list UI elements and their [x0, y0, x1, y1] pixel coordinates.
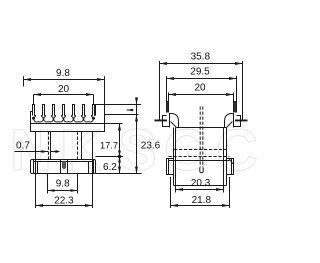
leader line L2 comb-top level — [105, 114, 139, 116]
body wall extension through flange left (22.3 ext) — [35, 160, 37, 209]
svg-text:22.3: 22.3 — [54, 195, 74, 206]
dimension 22.3: arrows — [36, 204, 93, 207]
right tab hook — [229, 158, 233, 164]
svg-text:9.8: 9.8 — [56, 178, 70, 189]
dimension 22.3: line — [36, 205, 93, 207]
svg-text:20: 20 — [194, 83, 206, 94]
body left wall — [35, 132, 37, 160]
flange inner rim right — [93, 160, 95, 174]
dimension 35.8: text — [191, 52, 211, 63]
dimension 20 top-left: extension lines — [34, 95, 94, 105]
dimension 21.8: text — [192, 195, 212, 206]
flange inner top line — [34, 161, 94, 163]
dimension 23.6: arrow up to L2 — [135, 115, 138, 122]
center pin cross-section (hatched) — [62, 162, 66, 170]
dimension 21.8: line — [171, 205, 230, 207]
small arrow between L1 and L2 — [127, 109, 134, 111]
pin 1 — [33, 105, 35, 116]
dimension 29.5: arrows — [167, 77, 237, 80]
blob at pin 7 base — [92, 117, 95, 120]
core wall hidden line right — [81, 132, 83, 160]
body right wall — [92, 132, 94, 160]
dimension 9.8 bottom: text — [56, 178, 70, 189]
left pin body — [167, 102, 169, 113]
blob at pin 1 base — [32, 117, 35, 120]
dimension 20 right: arrows — [169, 93, 234, 96]
slab second line — [169, 160, 230, 162]
dimension 17.7: bottom arrow — [118, 151, 121, 157]
dimension 20 top-left: line — [34, 94, 94, 96]
slab top hidden line — [169, 156, 230, 158]
dimension 9.8 top: text — [56, 68, 70, 79]
dimension 20 top-left: text — [58, 84, 70, 95]
dimension 20.3: text — [191, 178, 211, 189]
svg-text:20: 20 — [58, 84, 70, 95]
window bottom hidden line — [174, 149, 226, 151]
right tab — [227, 159, 234, 175]
dimension 20.3: arrows — [176, 188, 224, 191]
left pin SMD foot — [155, 120, 168, 122]
dimension 22.3: text — [54, 195, 74, 206]
dimension 21.8: extension lines — [171, 177, 230, 208]
dimension 35.8: line — [160, 63, 243, 65]
dimension 9.8 bottom: line — [48, 190, 78, 192]
dimension 29.5: text — [190, 67, 210, 78]
flange outer wall right — [234, 116, 241, 127]
dimension 20 right: extension lines — [169, 93, 234, 102]
dimension 0.7: leader and arrows — [15, 151, 60, 153]
leader line flange-top level — [96, 156, 124, 158]
dimension 35.8: arrows — [160, 62, 243, 65]
core wall solid line right — [77, 132, 79, 160]
pin 4 — [63, 105, 65, 116]
flange center slot walls — [61, 160, 68, 174]
pin 5 — [73, 105, 75, 116]
junction dot between 17.7 and 6.2 — [118, 155, 122, 159]
dimension 23.6: bottom arrow — [135, 167, 138, 174]
svg-text:23.6: 23.6 — [141, 140, 161, 151]
flange inner rim left — [33, 160, 35, 174]
bottom flange outline — [31, 160, 96, 174]
body wall right inner — [223, 128, 225, 193]
seat block right — [225, 114, 234, 128]
seat block right chamfer — [226, 122, 233, 129]
flange lip right — [88, 162, 90, 174]
dimension 29.5: extension lines — [167, 76, 237, 102]
dimension 20 right: text — [194, 83, 206, 94]
base band of pin header — [31, 112, 105, 132]
seat block left — [170, 114, 179, 128]
pin 3 — [53, 105, 55, 116]
leader line bottom level — [96, 173, 142, 175]
right pin SMD foot — [235, 120, 248, 122]
right tab inner line — [231, 159, 233, 175]
bottom edge — [174, 185, 227, 187]
svg-text:17.7: 17.7 — [100, 140, 118, 150]
dimension 9.8 top: right extension line — [104, 76, 106, 104]
dimension 9.8 top: left extension tick — [23, 76, 25, 86]
dimension 20 right: line — [169, 94, 234, 96]
right pin body — [234, 102, 237, 113]
dimension 17.7: top arrow — [118, 124, 121, 131]
left pin lead — [159, 61, 161, 120]
center hidden lines — [200, 107, 203, 168]
flange lip left — [37, 162, 39, 174]
dimension 20.3: line — [176, 189, 224, 191]
dimension 9.8 bottom: arrows — [48, 189, 78, 192]
core wall hidden line left — [48, 132, 50, 160]
svg-text:9.8: 9.8 — [56, 68, 70, 79]
dimension 17.7: text — [100, 140, 118, 150]
svg-text:35.8: 35.8 — [191, 52, 211, 63]
seat block left chamfer — [171, 122, 178, 129]
center leg U notch — [200, 168, 203, 173]
svg-text:29.5: 29.5 — [190, 67, 210, 78]
dimension 23.6: text — [141, 140, 161, 151]
pin 2 — [43, 105, 45, 116]
core wall solid line left — [50, 132, 52, 160]
dimension 9.8 top: arrows — [24, 78, 105, 81]
comb profile (pin header top with U notches) — [34, 116, 96, 122]
body wall extension through flange right (22.3 ext) — [92, 160, 94, 209]
leader line L1 pin-top level — [105, 104, 142, 106]
comb left wall and shoulder — [31, 112, 33, 124]
svg-text:6.2: 6.2 — [103, 162, 117, 173]
dimension 23.6: vertical line — [136, 97, 138, 173]
dimension 9.8 top: line — [24, 79, 105, 81]
svg-text:21.8: 21.8 — [192, 195, 212, 206]
dimension 0.7: text — [16, 141, 30, 152]
dimension 6.2: text — [103, 162, 117, 173]
dimension 23.6: top outside arrow — [135, 98, 138, 105]
body wall left outer — [173, 128, 175, 186]
body wall right outer — [226, 128, 228, 186]
dimension 29.5: line — [167, 78, 237, 80]
svg-text:20.3: 20.3 — [191, 178, 211, 189]
ledge line — [177, 127, 226, 129]
pin 7 — [93, 105, 95, 116]
right end block of pin header — [96, 105, 105, 124]
dimension 17.7 / 6.2 shared vertical line — [119, 124, 121, 174]
dimension 6.2: top arrow — [118, 157, 121, 163]
flange outer wall left — [163, 116, 170, 127]
leader line base-band-top level — [105, 123, 123, 125]
svg-text:0.7: 0.7 — [16, 141, 30, 152]
left tab — [167, 159, 174, 175]
right pin lead — [242, 61, 244, 120]
dimension 9.8 bottom: extension lines — [48, 174, 78, 194]
dimension 6.2: bottom arrow — [118, 167, 121, 174]
watermark — [10, 118, 258, 183]
dimension 20 top-left: arrows — [34, 93, 94, 96]
left tab inner line — [168, 159, 170, 175]
pin 6 — [83, 105, 85, 116]
body wall left inner — [175, 128, 177, 193]
dimension 21.8: arrows — [171, 204, 230, 207]
